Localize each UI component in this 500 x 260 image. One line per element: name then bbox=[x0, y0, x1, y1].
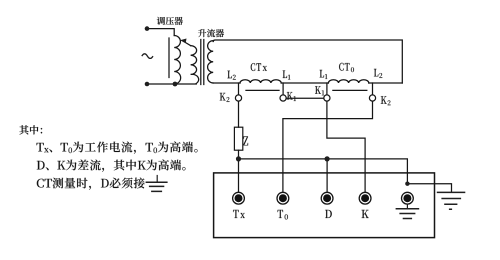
transformer T2 core bbox=[201, 40, 204, 85]
label CT0 bbox=[339, 63, 354, 72]
wire CT0-K2 to T0 terminal bbox=[283, 101, 373, 192]
node earth junction bbox=[405, 182, 409, 186]
wire CT0 K1 stub bbox=[326, 83, 328, 95]
binding post D bbox=[321, 192, 333, 204]
terminal box bbox=[214, 173, 435, 238]
wire top rail and right side bbox=[213, 40, 402, 83]
binding post K center bbox=[361, 194, 369, 202]
label L2 of CT0 bbox=[374, 69, 382, 78]
terminal K2 of CT0 bbox=[369, 95, 375, 101]
binding post T0 bbox=[277, 192, 289, 204]
ground symbol in note stem bbox=[156, 175, 158, 182]
label L1 of CT0 bbox=[320, 70, 328, 79]
CT transformer CT0 winding bbox=[328, 80, 368, 83]
label binding post Tx bbox=[233, 210, 245, 218]
CT transformer CTx secondary bar bbox=[246, 89, 279, 91]
wire bottom rail middle bbox=[281, 82, 328, 84]
label current booster (sheng liu qi) bbox=[198, 29, 224, 37]
label K1 of CTx bbox=[287, 92, 296, 101]
label binding post K bbox=[362, 210, 369, 218]
transformer T2 primary winding bbox=[191, 46, 199, 84]
CT transformer CT0 secondary bar bbox=[333, 89, 367, 91]
binding post Tx bbox=[233, 192, 245, 204]
binding post earth center bbox=[403, 194, 411, 202]
terminal K2 of CTx bbox=[235, 95, 241, 101]
wire Z to Tx terminal bbox=[238, 150, 240, 192]
wire AC bottom lead bbox=[147, 83, 196, 85]
wire bottom rail left bbox=[213, 82, 240, 84]
wire CT0 K2 stub bbox=[372, 83, 374, 95]
node Z ground-rail junction bbox=[236, 156, 241, 161]
label binding post T0 bbox=[278, 210, 288, 220]
label binding post D bbox=[325, 210, 332, 218]
transformer T1 variac bar bbox=[168, 38, 170, 78]
wire CT0-K1 to K terminal bbox=[327, 101, 365, 192]
terminal K1 of CT0 bbox=[324, 95, 330, 101]
wire ground terminal to external earth bbox=[407, 184, 451, 192]
ground symbol internal stem bbox=[406, 204, 408, 208]
wire AC top lead bbox=[147, 29, 174, 36]
transformer T1 wiper wire bbox=[183, 41, 190, 45]
node D ground-rail junction bbox=[325, 156, 330, 161]
ground symbol internal bars bbox=[396, 209, 420, 219]
wire D terminal drop bbox=[326, 159, 328, 192]
wire CTx K1 stub bbox=[282, 83, 284, 95]
label K2 of CT0 bbox=[381, 96, 391, 105]
label L2 of CTx bbox=[227, 71, 235, 80]
note line 4 bbox=[37, 178, 145, 190]
transformer T2 secondary winding bbox=[208, 41, 214, 83]
ground symbol external bars bbox=[437, 192, 466, 209]
CT transformer CTx winding bbox=[240, 80, 281, 83]
terminal K1 of CTx bbox=[280, 95, 286, 101]
wire K1-K1 link bbox=[286, 97, 324, 99]
label voltage regulator (tiao ya qi) bbox=[157, 17, 183, 25]
label CTx bbox=[251, 63, 267, 71]
wire CTx-K2 to Z bbox=[238, 101, 240, 127]
node AC source top bbox=[145, 26, 150, 31]
binding post Tx center bbox=[235, 194, 243, 202]
node AC source bottom bbox=[145, 82, 150, 87]
binding post T0 center bbox=[279, 194, 287, 202]
label resistor Z bbox=[243, 136, 248, 145]
ground symbol in note bars bbox=[146, 182, 168, 191]
wire bottom rail right bbox=[369, 82, 403, 84]
note line 3 bbox=[37, 160, 186, 172]
note heading qizhong bbox=[19, 125, 42, 134]
binding post earth bbox=[402, 192, 414, 204]
resistor Z body bbox=[234, 127, 242, 150]
label L1 of CTx bbox=[283, 71, 291, 80]
transformer T1 variac winding bbox=[174, 36, 180, 85]
wire ground rail bbox=[239, 159, 408, 184]
binding post D center bbox=[323, 194, 331, 202]
label K2 of CTx bbox=[220, 93, 230, 102]
node variac bottom junction bbox=[173, 82, 178, 87]
wire CTx K2 stub bbox=[238, 83, 240, 95]
label K1 of CT0 bbox=[315, 86, 324, 95]
transformer T1 wiper arrowhead bbox=[180, 39, 187, 44]
note line 2 bbox=[37, 142, 198, 154]
AC source symbol bbox=[142, 54, 153, 59]
binding post K bbox=[359, 192, 371, 204]
